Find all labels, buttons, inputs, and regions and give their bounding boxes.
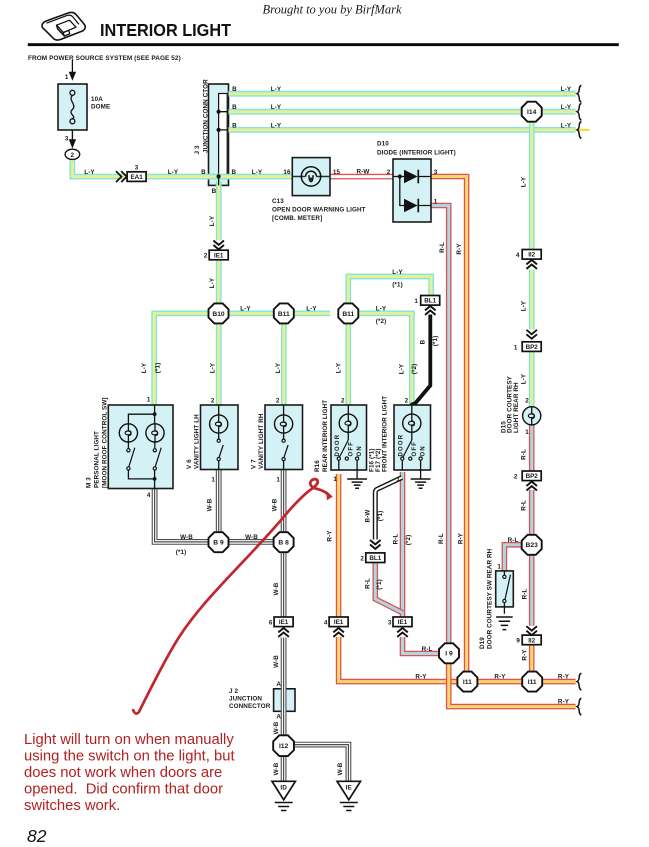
svg-text:2: 2 bbox=[341, 397, 345, 404]
svg-text:R-Y: R-Y bbox=[558, 673, 570, 680]
svg-text:ON: ON bbox=[357, 445, 363, 456]
wire J3 B wire 3 (L-Y) bbox=[229, 127, 576, 133]
svg-text:1: 1 bbox=[434, 198, 438, 205]
wire B8 to IE1 pin6 (W-B) bbox=[281, 552, 287, 617]
svg-text:R-Y: R-Y bbox=[494, 673, 506, 680]
svg-text:2: 2 bbox=[360, 555, 364, 562]
svg-text:L-Y: L-Y bbox=[561, 122, 572, 129]
connector II2 pin4 bbox=[522, 250, 541, 260]
svg-text:L-Y: L-Y bbox=[271, 104, 282, 111]
wire D10 pin1 to I9 (R-L) bbox=[431, 206, 449, 644]
svg-text:BP2: BP2 bbox=[526, 344, 539, 351]
svg-text:R-Y: R-Y bbox=[456, 243, 463, 255]
wire IE1 pin2 to B10 (L-Y) bbox=[216, 260, 222, 303]
wire J3 B wire 2 through I14 (L-Y) bbox=[229, 109, 576, 115]
svg-text:I11: I11 bbox=[528, 679, 537, 686]
arrow fuse to node 2 bbox=[71, 130, 73, 140]
svg-text:DIODE (INTERIOR LIGHT): DIODE (INTERIOR LIGHT) bbox=[377, 150, 456, 157]
C13 open door warning light bulb bbox=[292, 167, 330, 186]
red annotation arrow curve bbox=[133, 479, 329, 713]
svg-text:L-Y: L-Y bbox=[336, 362, 343, 373]
svg-text:W-B: W-B bbox=[272, 498, 279, 511]
svg-text:1: 1 bbox=[414, 298, 418, 305]
svg-text:FRONT INTERIOR LIGHT: FRONT INTERIOR LIGHT bbox=[381, 396, 388, 472]
svg-text:R-L: R-L bbox=[520, 449, 527, 460]
svg-text:L-Y: L-Y bbox=[306, 306, 317, 313]
svg-text:(*1): (*1) bbox=[155, 363, 162, 374]
wire BL1 pin2 to IE1 pin3 (R-L *1) bbox=[375, 562, 402, 613]
svg-text:(*1): (*1) bbox=[176, 549, 187, 556]
connector arrow above BP2 pin1 bbox=[526, 330, 537, 339]
bulb R16 bulb bbox=[339, 414, 357, 432]
node I14 bbox=[522, 102, 542, 122]
node I11 no1 bbox=[457, 672, 477, 692]
node I12 bbox=[273, 735, 294, 756]
svg-text:BL1: BL1 bbox=[369, 555, 381, 562]
ground bars IE bbox=[340, 803, 358, 811]
node B9 bbox=[209, 532, 229, 552]
wire C13 pin15 to D10 pin2 (R-W) bbox=[330, 174, 393, 180]
connector arrow above BL1 pin2 bbox=[370, 540, 381, 549]
wire EA1 through J3 to C13 pin16 (L-Y) bbox=[146, 174, 292, 180]
svg-text:3: 3 bbox=[434, 169, 438, 176]
svg-text:1: 1 bbox=[276, 477, 280, 484]
svg-text:FROM POWER SOURCE SYSTEM (SEE: FROM POWER SOURCE SYSTEM (SEE PAGE 52) bbox=[28, 55, 181, 62]
wire D15 pin1 to BP2 pin2 (R-L) bbox=[529, 425, 535, 471]
ground bars ID bbox=[275, 803, 293, 811]
svg-text:L-Y: L-Y bbox=[209, 215, 216, 226]
personal light M3 box bbox=[108, 405, 173, 489]
svg-text:DOME: DOME bbox=[91, 104, 110, 111]
svg-text:IE1: IE1 bbox=[214, 252, 224, 259]
svg-text:L-Y: L-Y bbox=[240, 306, 251, 313]
svg-text:16: 16 bbox=[283, 169, 291, 176]
wire B9 to B8 (W-B) bbox=[229, 539, 274, 545]
svg-text:B: B bbox=[232, 122, 237, 129]
connector arrow below BP2 pin2 bbox=[526, 482, 537, 491]
svg-text:(*2): (*2) bbox=[411, 364, 418, 375]
svg-text:1: 1 bbox=[396, 476, 400, 483]
svg-text:D19: D19 bbox=[479, 637, 486, 649]
svg-text:M 3: M 3 bbox=[85, 477, 92, 488]
node B11 no1 bbox=[274, 303, 294, 323]
wire I12 to IE ground (W-B) bbox=[294, 745, 349, 782]
svg-text:ON: ON bbox=[421, 445, 427, 456]
node B11 no2 bbox=[338, 303, 358, 323]
svg-text:L-Y: L-Y bbox=[210, 362, 217, 373]
svg-text:1: 1 bbox=[147, 397, 151, 404]
svg-text:IE1: IE1 bbox=[398, 619, 408, 626]
svg-text:B: B bbox=[420, 339, 427, 344]
svg-text:I14: I14 bbox=[527, 109, 537, 116]
svg-text:IE1: IE1 bbox=[279, 619, 289, 626]
svg-text:W-B: W-B bbox=[273, 655, 280, 668]
svg-text:2: 2 bbox=[204, 253, 208, 260]
header rule bbox=[28, 43, 619, 46]
svg-text:R-Y: R-Y bbox=[415, 673, 427, 680]
svg-text:(*1): (*1) bbox=[376, 579, 383, 590]
ground below R16 bbox=[347, 479, 367, 488]
wire I12 to ID ground (W-B) bbox=[281, 756, 287, 782]
svg-text:I11: I11 bbox=[463, 679, 472, 686]
svg-text:W-B: W-B bbox=[337, 762, 344, 775]
connector arrow above II2 pin9 bbox=[526, 626, 537, 635]
wire J3 down to IE1 pin2 (L-Y) bbox=[216, 181, 222, 241]
svg-text:D10: D10 bbox=[377, 141, 389, 148]
wire IE1 pin4 to I11 (R-Y) bbox=[339, 637, 458, 682]
connector arrow below II2 pin4 bbox=[526, 260, 537, 269]
svg-text:L-Y: L-Y bbox=[398, 363, 405, 374]
svg-text:DOOR: DOOR bbox=[335, 434, 341, 457]
svg-text:VANITY LIGHT LH: VANITY LIGHT LH bbox=[193, 414, 200, 469]
connector IE1 pin6 bbox=[274, 617, 293, 627]
svg-text:2: 2 bbox=[276, 397, 280, 404]
svg-text:REAR INTERIOR LIGHT: REAR INTERIOR LIGHT bbox=[322, 400, 329, 472]
svg-text:J 2: J 2 bbox=[229, 688, 238, 695]
continuation brace L-Y 1 bbox=[577, 85, 581, 102]
svg-text:2: 2 bbox=[514, 474, 518, 481]
svg-text:L-Y: L-Y bbox=[520, 176, 527, 187]
svg-text:W-B: W-B bbox=[273, 721, 280, 734]
connector BP2 pin1 bbox=[522, 342, 541, 352]
connector BL1 pin2 bbox=[366, 553, 385, 563]
vanity light V7 box bbox=[265, 405, 303, 470]
door courtesy switch D19 box bbox=[496, 571, 514, 607]
svg-text:W-B: W-B bbox=[206, 498, 213, 511]
svg-text:B 8: B 8 bbox=[278, 540, 289, 547]
svg-text:B: B bbox=[232, 86, 237, 93]
wire I11 to brace (R-Y) bbox=[543, 679, 576, 685]
svg-text:B11: B11 bbox=[278, 311, 290, 318]
M3 internals bbox=[128, 405, 154, 424]
svg-text:L-Y: L-Y bbox=[141, 362, 148, 373]
wire V7 pin1 to B8 (W-B) bbox=[281, 470, 287, 533]
svg-text:A: A bbox=[276, 714, 281, 721]
svg-text:W-B: W-B bbox=[180, 534, 193, 541]
svg-text:B: B bbox=[232, 104, 237, 111]
wire B23 to D19 pin1 (R-L) bbox=[504, 545, 522, 571]
svg-text:II2: II2 bbox=[528, 637, 535, 644]
svg-text:DOOR COURTESY SW REAR RH: DOOR COURTESY SW REAR RH bbox=[486, 548, 493, 649]
svg-text:L-Y: L-Y bbox=[271, 122, 282, 129]
svg-text:R-L: R-L bbox=[438, 533, 445, 544]
svg-text:PERSONAL LIGHT: PERSONAL LIGHT bbox=[93, 431, 100, 488]
bulb V6 bulb bbox=[210, 415, 228, 433]
wire J3 top B wire 1 (L-Y) bbox=[229, 91, 576, 97]
svg-text:I 9: I 9 bbox=[445, 651, 453, 658]
wire BL1 pin1 to F16 pin2 (B) bbox=[413, 315, 430, 405]
svg-text:V 7: V 7 bbox=[250, 459, 257, 469]
svg-text:B23: B23 bbox=[526, 542, 539, 549]
bulb door courtesy light D15 bbox=[523, 407, 541, 425]
svg-text:B-W: B-W bbox=[365, 510, 372, 523]
svg-text:INTERIOR LIGHT: INTERIOR LIGHT bbox=[100, 20, 231, 40]
wire B11 to R16 pin2 (L-Y) bbox=[345, 323, 351, 405]
connector IE1 pin4 bbox=[329, 617, 348, 627]
D19 switch internals bbox=[503, 571, 505, 614]
bulb V7 bulb bbox=[275, 415, 293, 433]
rear interior light R16 box bbox=[331, 405, 367, 470]
svg-text:R-L: R-L bbox=[520, 500, 527, 511]
svg-text:L-Y: L-Y bbox=[561, 86, 572, 93]
svg-text:LIGHT REAR RH: LIGHT REAR RH bbox=[513, 382, 520, 433]
svg-text:1: 1 bbox=[514, 344, 518, 351]
svg-text:B11: B11 bbox=[342, 311, 354, 318]
wire B10 to V6 pin2 (L-Y) bbox=[216, 323, 222, 405]
svg-text:W-B: W-B bbox=[245, 534, 258, 541]
node I11 no2 bbox=[522, 672, 542, 692]
connector arrow below IE1 pin6 bbox=[278, 628, 289, 637]
ground below F16 bbox=[411, 479, 431, 488]
svg-text:A: A bbox=[276, 681, 281, 688]
svg-text:2: 2 bbox=[71, 152, 75, 159]
svg-text:I12: I12 bbox=[279, 743, 289, 750]
svg-text:4: 4 bbox=[147, 492, 151, 499]
junction dot at F16 pin2 bbox=[410, 402, 414, 406]
wire B11 to V7 pin2 (L-Y) bbox=[281, 323, 287, 405]
svg-text:(*1): (*1) bbox=[392, 282, 403, 289]
svg-text:(*2): (*2) bbox=[405, 535, 412, 546]
J3 inner channel bbox=[219, 94, 228, 177]
connector arrow below IE1 pin3 bbox=[397, 628, 408, 637]
connector arrow below BL1 pin1 bbox=[425, 306, 436, 315]
svg-text:R-L: R-L bbox=[365, 578, 372, 589]
svg-text:CONNECTOR: CONNECTOR bbox=[229, 703, 271, 710]
svg-text:(*2): (*2) bbox=[376, 318, 387, 325]
wire B10 to M3 pin1 (L-Y *1) bbox=[154, 313, 209, 405]
svg-text:L-Y: L-Y bbox=[271, 86, 282, 93]
svg-text:2: 2 bbox=[525, 398, 529, 405]
comb meter C13 box bbox=[292, 158, 330, 196]
node B23 bbox=[522, 535, 542, 555]
svg-text:L-Y: L-Y bbox=[561, 104, 572, 111]
svg-text:L-Y: L-Y bbox=[520, 300, 527, 311]
fuse box 10A DOME bbox=[58, 84, 87, 130]
svg-text:OPEN DOOR WARNING LIGHT: OPEN DOOR WARNING LIGHT bbox=[272, 207, 366, 214]
svg-text:4: 4 bbox=[516, 252, 520, 259]
ground triangle ID bbox=[272, 781, 295, 800]
wire B11 to F16 pin2 (L-Y *2) bbox=[358, 313, 412, 405]
svg-text:IE1: IE1 bbox=[334, 619, 344, 626]
svg-text:R-Y: R-Y bbox=[326, 530, 333, 542]
svg-text:R-Y: R-Y bbox=[458, 532, 465, 544]
node B8 bbox=[274, 532, 294, 552]
node I9 bbox=[439, 643, 459, 663]
wire IE1 pin3 to I9 (R-L) bbox=[403, 637, 440, 654]
svg-text:II2: II2 bbox=[528, 252, 535, 259]
wire R16 pin1 to IE1 pin4 (R-Y) bbox=[336, 474, 342, 617]
svg-text:3: 3 bbox=[65, 136, 69, 143]
continuation brace L-Y 2 bbox=[577, 103, 581, 120]
connector arrow above IE1 pin2 bbox=[213, 241, 224, 250]
junction connector J2 box bbox=[274, 689, 295, 712]
svg-text:L-Y: L-Y bbox=[520, 373, 527, 384]
svg-text:3: 3 bbox=[135, 164, 139, 171]
wire B23 to II2 pin9 (R-L) bbox=[529, 555, 535, 626]
svg-text:L-Y: L-Y bbox=[275, 362, 282, 373]
svg-text:B 9: B 9 bbox=[213, 540, 224, 547]
wire I14 down to II2 pin4 (L-Y) bbox=[529, 121, 535, 250]
wire B11 up to BL1 pin1 (L-Y *1) bbox=[348, 277, 431, 304]
svg-text:(*1): (*1) bbox=[377, 511, 384, 522]
svg-text:L-Y: L-Y bbox=[84, 169, 95, 176]
wire fuse to EA1 (L-Y) bbox=[72, 159, 126, 176]
svg-text:1: 1 bbox=[497, 564, 501, 571]
connector arrow below IE1 pin4 bbox=[333, 628, 344, 637]
wire M3 pin4 to B9 (W-B) bbox=[155, 489, 209, 542]
svg-text:L-Y: L-Y bbox=[392, 269, 403, 276]
node circle 2 bbox=[65, 149, 80, 159]
svg-text:(*1): (*1) bbox=[432, 336, 439, 347]
connector BP2 pin2 bbox=[522, 471, 541, 481]
header dome light icon bbox=[42, 13, 85, 41]
power feed arrow bbox=[71, 60, 73, 74]
svg-text:R-L: R-L bbox=[422, 646, 433, 653]
svg-text:9: 9 bbox=[516, 638, 520, 645]
wire B11 to B11 (L-Y) bbox=[294, 310, 331, 316]
svg-text:B: B bbox=[231, 169, 236, 176]
svg-text:R-L: R-L bbox=[439, 242, 446, 253]
svg-text:[COMB. METER]: [COMB. METER] bbox=[272, 215, 322, 222]
svg-text:OFF: OFF bbox=[348, 441, 354, 457]
svg-text:1: 1 bbox=[333, 476, 337, 483]
wire B10 to B11 (L-Y) bbox=[228, 310, 274, 316]
connector II2 pin9 bbox=[522, 635, 541, 645]
svg-text:L-Y: L-Y bbox=[168, 169, 179, 176]
svg-text:R-L: R-L bbox=[393, 534, 400, 545]
svg-text:C13: C13 bbox=[272, 198, 284, 205]
svg-text:JUNCTION: JUNCTION bbox=[229, 696, 262, 703]
svg-text:R-Y: R-Y bbox=[522, 649, 529, 661]
wire II2 pin9 to I11 (R-Y) bbox=[529, 645, 535, 672]
connector EA1 bbox=[127, 172, 146, 182]
svg-text:does not work when doors are: does not work when doors are bbox=[24, 765, 222, 781]
svg-text:V 6: V 6 bbox=[186, 459, 193, 469]
wire F16 pin1 to IE1 pin3 (R-L *2) bbox=[400, 472, 406, 617]
ground triangle IE bbox=[337, 781, 360, 800]
svg-text:Light will turn on when manual: Light will turn on when manually bbox=[24, 732, 234, 748]
svg-text:L-Y: L-Y bbox=[209, 277, 216, 288]
svg-text:using the switch on the light,: using the switch on the light, but bbox=[24, 748, 235, 764]
J3 internal stubs and junctions bbox=[219, 112, 229, 186]
svg-text:6: 6 bbox=[269, 620, 273, 627]
svg-text:switches work.: switches work. bbox=[24, 798, 120, 814]
svg-text:L-Y: L-Y bbox=[252, 169, 263, 176]
continuation brace R-Y upper bbox=[577, 673, 581, 690]
svg-text:R-W: R-W bbox=[357, 169, 370, 176]
svg-text:R-L: R-L bbox=[508, 537, 519, 544]
wire I11 to I11 (R-Y) bbox=[477, 679, 523, 685]
svg-text:10A: 10A bbox=[91, 96, 103, 103]
wire II2 pin4 to BP2 pin1 (L-Y) bbox=[529, 270, 535, 330]
svg-text:R16: R16 bbox=[314, 460, 321, 472]
svg-text:B10: B10 bbox=[212, 311, 225, 318]
svg-text:BL1: BL1 bbox=[424, 298, 436, 305]
svg-text:[MOON ROOF CONTROL SW]: [MOON ROOF CONTROL SW] bbox=[101, 397, 108, 488]
bulb M3 right bulb bbox=[146, 424, 164, 442]
ground below D19 bbox=[496, 617, 513, 630]
front interior light F16/F17 box bbox=[394, 405, 431, 470]
svg-text:15: 15 bbox=[333, 169, 341, 176]
svg-text:R-Y: R-Y bbox=[558, 698, 570, 705]
svg-text:Brought to you by BirfMark: Brought to you by BirfMark bbox=[262, 3, 402, 17]
connector IE1 pin3 bbox=[393, 617, 412, 627]
svg-text:EA1: EA1 bbox=[130, 174, 143, 181]
continuation brace R-Y lower bbox=[577, 698, 581, 715]
wire D10 pin3 to I11 (R-Y) bbox=[431, 177, 467, 672]
svg-text:opened. Did confirm that door: opened. Did confirm that door bbox=[24, 781, 223, 797]
diode D10 box bbox=[393, 159, 431, 222]
svg-text:J 3: J 3 bbox=[194, 145, 201, 154]
svg-text:2: 2 bbox=[405, 397, 409, 404]
svg-text:R-L: R-L bbox=[522, 589, 529, 600]
svg-text:B: B bbox=[201, 169, 206, 176]
connector BL1 pin1 bbox=[421, 296, 440, 306]
svg-text:4: 4 bbox=[324, 620, 328, 627]
svg-text:IE: IE bbox=[346, 784, 353, 791]
svg-text:VANITY LIGHT RH: VANITY LIGHT RH bbox=[258, 413, 265, 469]
svg-text:82: 82 bbox=[27, 826, 47, 842]
yellow continuation tail bbox=[578, 129, 590, 131]
svg-text:W-B: W-B bbox=[273, 762, 280, 775]
svg-text:1: 1 bbox=[211, 477, 215, 484]
svg-text:3: 3 bbox=[388, 620, 392, 627]
svg-text:1: 1 bbox=[525, 429, 529, 436]
svg-text:2: 2 bbox=[387, 169, 391, 176]
svg-text:BP2: BP2 bbox=[526, 473, 539, 480]
svg-text:2: 2 bbox=[211, 397, 215, 404]
wire V6 pin1 to B9 (W-B) bbox=[216, 470, 222, 533]
D10 internal diodes bbox=[393, 177, 431, 206]
continuation brace L-Y 3 bbox=[577, 122, 581, 139]
svg-text:DOOR: DOOR bbox=[399, 434, 405, 457]
connector IE1 pin2 bbox=[209, 250, 228, 260]
bulb F16 bulb bbox=[403, 414, 421, 432]
wire F16 pin1 to BL1 pin2 (B-W) bbox=[375, 478, 402, 540]
svg-text:L-Y: L-Y bbox=[376, 306, 387, 313]
wire IE1 pin6 through J2 to I12 (W-B) bbox=[281, 638, 287, 737]
connector arrow into EA1 bbox=[116, 171, 127, 182]
svg-text:JUNCTION CONN CTOR: JUNCTION CONN CTOR bbox=[202, 79, 209, 153]
wire I9 down to brace (R-Y) bbox=[449, 663, 576, 707]
wire BP2 pin2 to B23 (R-L) bbox=[529, 490, 535, 535]
junction connector J3 box bbox=[209, 84, 229, 185]
svg-text:B: B bbox=[212, 188, 217, 195]
node B10 bbox=[209, 303, 229, 323]
svg-text:ID: ID bbox=[280, 784, 287, 791]
bulb M3 left bulb bbox=[119, 424, 137, 442]
svg-text:W-B: W-B bbox=[273, 582, 280, 595]
svg-text:1: 1 bbox=[65, 74, 69, 81]
svg-text:OFF: OFF bbox=[412, 441, 418, 457]
vanity light V6 box bbox=[201, 405, 239, 470]
wire BP2 pin1 to D15 pin2 (L-Y) bbox=[529, 351, 535, 407]
